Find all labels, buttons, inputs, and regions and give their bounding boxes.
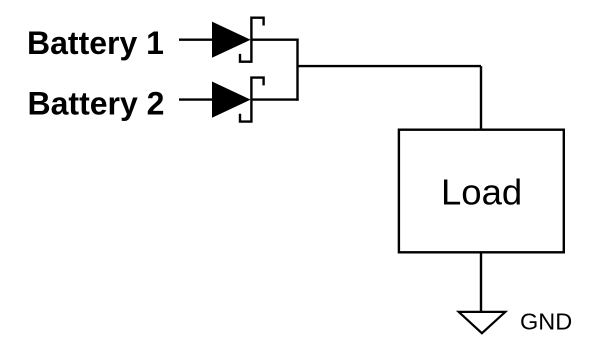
svg-text:Battery 2: Battery 2 — [28, 86, 165, 122]
svg-text:Battery 1: Battery 1 — [27, 25, 164, 61]
svg-text:GND: GND — [520, 309, 572, 335]
svg-text:Load: Load — [441, 172, 522, 213]
